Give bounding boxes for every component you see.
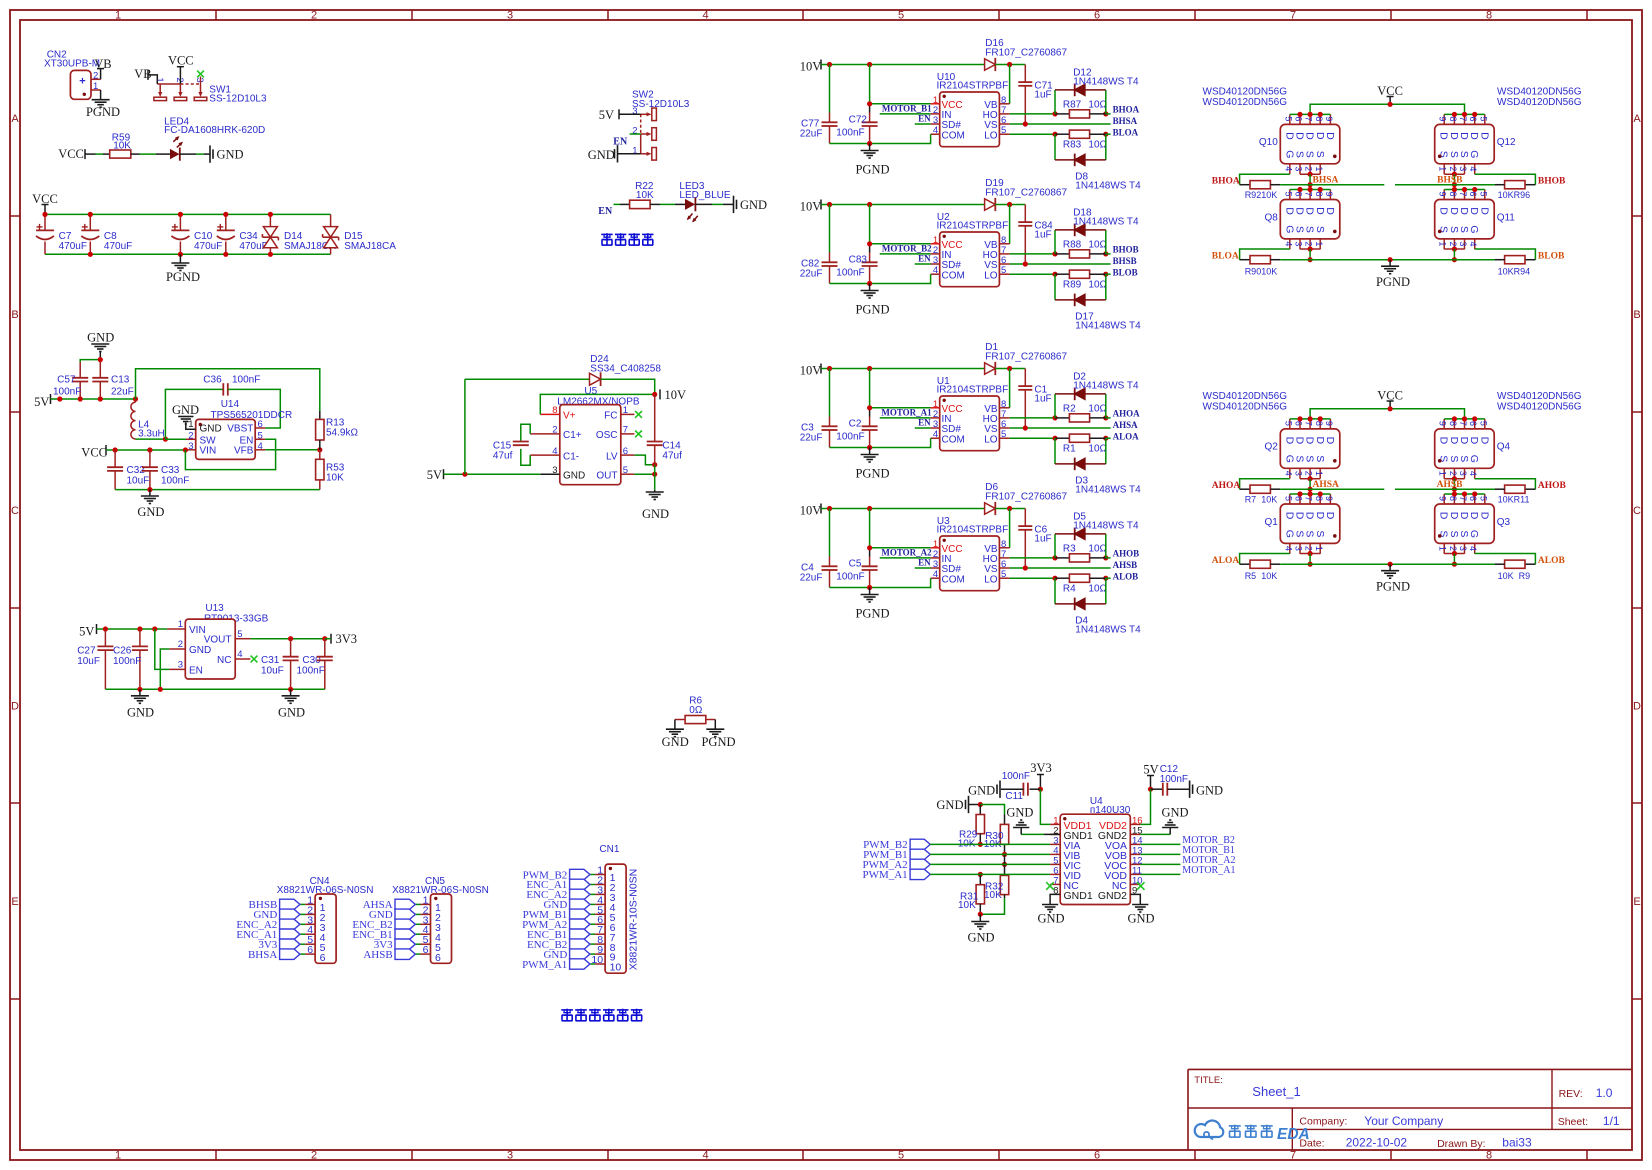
wire 10V rail U2 bbox=[821, 202, 985, 207]
svg-text:7: 7 bbox=[1290, 10, 1296, 22]
JLCEDA logo bbox=[1195, 1121, 1310, 1143]
U3 pin3 stub bbox=[931, 567, 940, 569]
resistor R9010K body bbox=[1240, 256, 1281, 264]
svg-text:3: 3 bbox=[507, 10, 513, 22]
power symbol GND above C57 bbox=[87, 331, 114, 360]
svg-text:BHOB: BHOB bbox=[1538, 177, 1566, 187]
wire LV to C14 bbox=[634, 455, 657, 467]
svg-text:D: D bbox=[1478, 132, 1490, 140]
svg-text:GND: GND bbox=[936, 798, 963, 812]
wire 10V rail U1 bbox=[821, 366, 985, 371]
net label AHOA bbox=[1113, 408, 1141, 418]
svg-text:MOTOR_B2: MOTOR_B2 bbox=[882, 244, 932, 254]
diode D4 body bbox=[1075, 598, 1085, 611]
wire OUT node bbox=[634, 472, 657, 477]
U2 pin5 stub bbox=[999, 273, 1009, 275]
svg-text:47uf: 47uf bbox=[493, 451, 513, 462]
capacitor C57 labels bbox=[53, 375, 81, 398]
svg-text:E: E bbox=[11, 896, 18, 908]
svg-text:R83: R83 bbox=[1063, 140, 1082, 151]
wire R6 left bbox=[675, 720, 685, 730]
mosfet Q1 body bbox=[1264, 491, 1339, 553]
svg-text:R87: R87 bbox=[1063, 100, 1082, 111]
svg-text:7: 7 bbox=[1290, 1150, 1296, 1162]
svg-text:A: A bbox=[11, 113, 19, 125]
U10 pin5 stub bbox=[999, 133, 1009, 135]
svg-text:GND: GND bbox=[200, 423, 222, 434]
svg-text:X8821WR-10S-N0SN: X8821WR-10S-N0SN bbox=[628, 869, 640, 971]
wire U13 bottom rail bbox=[105, 687, 324, 692]
mosfet Q4 body bbox=[1435, 416, 1511, 478]
U4 pin10 NC X bbox=[1137, 882, 1145, 890]
svg-text:7: 7 bbox=[1304, 191, 1314, 196]
capacitor C3 labels bbox=[800, 423, 823, 444]
capacitor C14 body bbox=[647, 394, 663, 464]
svg-text:100nF: 100nF bbox=[1002, 771, 1030, 782]
svg-text:GND: GND bbox=[1006, 805, 1033, 819]
wire VCC to VIN pin3 bbox=[106, 447, 188, 452]
wire gate Q4 bbox=[1475, 479, 1536, 490]
capacitor C30 labels bbox=[297, 655, 325, 677]
svg-text:BLOA: BLOA bbox=[1113, 128, 1139, 138]
svg-text:GND: GND bbox=[662, 735, 689, 749]
connector CN2 refdes bbox=[47, 49, 67, 60]
power flag GND at SW2 bbox=[588, 145, 618, 162]
svg-text:3: 3 bbox=[1293, 471, 1303, 476]
part label WSD40120DN56G left Q10 bbox=[1203, 87, 1288, 108]
svg-text:PGND: PGND bbox=[855, 607, 889, 621]
svg-text:3: 3 bbox=[632, 106, 637, 117]
wire SW pin2 bbox=[165, 438, 186, 440]
wire VCC U3 bbox=[867, 545, 931, 550]
svg-text:EN: EN bbox=[918, 114, 931, 124]
net label EN at U10 bbox=[918, 114, 931, 124]
svg-text:C13: C13 bbox=[111, 375, 130, 386]
svg-text:5V: 5V bbox=[1143, 763, 1158, 777]
svg-text:10Ω: 10Ω bbox=[1088, 544, 1107, 555]
svg-text:4: 4 bbox=[1283, 546, 1293, 551]
svg-text:10uF: 10uF bbox=[261, 666, 284, 677]
svg-text:IR2104STRPBF: IR2104STRPBF bbox=[937, 220, 1009, 231]
svg-text:9: 9 bbox=[1438, 421, 1448, 426]
svg-text:S: S bbox=[1314, 455, 1326, 462]
wire LO node U10 bbox=[1010, 132, 1109, 137]
wire 5V to U4 pin16 bbox=[1140, 789, 1150, 824]
wire VB feed U1 bbox=[1009, 369, 1011, 408]
CN4 pin 4 port ENC_A1 bbox=[236, 924, 315, 941]
capacitor C4 body bbox=[822, 509, 838, 588]
junctions on cap bank buses bbox=[42, 212, 273, 257]
power flag 5V at U5 bbox=[427, 468, 444, 482]
diode D17 body bbox=[1075, 294, 1085, 307]
svg-text:R89: R89 bbox=[1063, 280, 1082, 291]
svg-text:22uF: 22uF bbox=[111, 387, 134, 398]
U1 pin1 stub bbox=[931, 407, 940, 409]
chinese caption mainboard-connector bbox=[561, 1009, 642, 1022]
svg-text:PWM_A1: PWM_A1 bbox=[862, 869, 907, 881]
TVS diode D14 labels bbox=[284, 231, 336, 252]
svg-text:C: C bbox=[11, 505, 19, 517]
power flag 10V at U5 bbox=[652, 388, 686, 402]
svg-text:D: D bbox=[1478, 512, 1490, 520]
wire HS row left BHSA bbox=[1280, 184, 1384, 186]
no-connect X on SW1 pin3 bbox=[197, 71, 204, 84]
svg-text:GND: GND bbox=[1196, 784, 1223, 798]
capacitor C72 body bbox=[862, 65, 878, 144]
power flag 10V at U2 bbox=[800, 199, 822, 213]
svg-text:4: 4 bbox=[1283, 241, 1293, 246]
svg-text:D: D bbox=[1324, 132, 1336, 140]
svg-text:Q10: Q10 bbox=[1259, 137, 1278, 148]
svg-text:3V3: 3V3 bbox=[1030, 761, 1052, 775]
svg-text:Q3: Q3 bbox=[1497, 517, 1511, 528]
capacitor C30 body bbox=[317, 639, 333, 690]
regulator U13 refdes bbox=[204, 603, 269, 625]
net label EN at SW2 bbox=[613, 136, 628, 147]
svg-text:EN: EN bbox=[613, 136, 628, 147]
resistor R32 labels bbox=[984, 881, 1004, 901]
svg-text:IR2104STRPBF: IR2104STRPBF bbox=[937, 524, 1009, 535]
svg-text:10Ω: 10Ω bbox=[1088, 140, 1107, 151]
wire GND to SW2 pin1 bbox=[618, 153, 641, 155]
power flag VB at SW1 bbox=[134, 67, 157, 84]
net label ALOB bbox=[1113, 572, 1139, 582]
svg-text:1: 1 bbox=[1314, 546, 1324, 551]
connector CN2 body bbox=[70, 70, 91, 99]
svg-text:PGND: PGND bbox=[855, 163, 889, 177]
power symbol GND at R6 bbox=[662, 729, 689, 749]
svg-text:2: 2 bbox=[632, 126, 637, 137]
svg-text:10KR94: 10KR94 bbox=[1498, 266, 1531, 276]
wire VS out U2 bbox=[1010, 261, 1111, 266]
svg-text:7: 7 bbox=[1304, 496, 1314, 501]
resistor R29 labels bbox=[958, 830, 978, 850]
connector CN4 value bbox=[277, 885, 374, 896]
U4 pin7 NC X bbox=[1046, 882, 1054, 890]
capacitor C84 labels bbox=[1034, 220, 1053, 240]
svg-text:GND: GND bbox=[127, 706, 154, 720]
svg-text:S: S bbox=[1314, 151, 1326, 158]
svg-text:6: 6 bbox=[1293, 496, 1303, 501]
net label MOTOR_B2 bbox=[882, 244, 932, 254]
svg-text:GND: GND bbox=[588, 148, 615, 162]
svg-text:COM: COM bbox=[942, 270, 965, 281]
svg-text:Q8: Q8 bbox=[1264, 212, 1278, 223]
svg-text:GND: GND bbox=[1161, 805, 1188, 819]
CN2 pin 2 bbox=[91, 71, 101, 82]
wire EN to SW2 pin2 bbox=[630, 133, 641, 135]
U2 pin1 stub bbox=[931, 243, 940, 245]
power flag VCC at R59 bbox=[58, 147, 85, 161]
wire VCC U1 bbox=[867, 405, 931, 410]
capacitor C6 labels bbox=[1034, 524, 1051, 544]
TVS diode D14 body bbox=[262, 214, 278, 254]
svg-text:10V: 10V bbox=[800, 199, 822, 213]
svg-text:1N4148WS T4: 1N4148WS T4 bbox=[1075, 485, 1141, 496]
LED LED3 body bbox=[685, 198, 698, 223]
svg-text:V+: V+ bbox=[563, 411, 576, 422]
resistor R53 labels bbox=[326, 463, 345, 484]
svg-text:BHOB: BHOB bbox=[1113, 244, 1139, 254]
wire 5V rail bbox=[51, 396, 139, 401]
capacitor C8 body bbox=[81, 214, 99, 254]
CN5 pin 1 port AHSA bbox=[363, 894, 431, 911]
resistor R3 body bbox=[1055, 554, 1106, 562]
svg-text:C11: C11 bbox=[1005, 791, 1023, 802]
svg-text:1N4148WS T4: 1N4148WS T4 bbox=[1073, 380, 1139, 391]
wire R22 to LED3 bbox=[650, 203, 685, 205]
capacitor C83 labels bbox=[836, 254, 867, 278]
svg-text:LO: LO bbox=[984, 270, 998, 281]
svg-text:MOTOR_A2: MOTOR_A2 bbox=[881, 548, 932, 558]
wire C57 C13 top link bbox=[80, 357, 103, 362]
svg-text:4: 4 bbox=[1283, 471, 1293, 476]
LED LED4 refdes bbox=[164, 116, 265, 136]
gate driver U10 body bbox=[933, 92, 1006, 147]
capacitor C77 labels bbox=[800, 119, 823, 140]
wire VS out U1 bbox=[1010, 425, 1111, 430]
CN1 pin 9 port GND bbox=[543, 944, 605, 961]
svg-text:EN: EN bbox=[598, 206, 613, 217]
svg-text:EN: EN bbox=[189, 665, 203, 676]
mosfet Q2 body bbox=[1264, 416, 1339, 478]
svg-text:1N4148WS T4: 1N4148WS T4 bbox=[1075, 625, 1141, 636]
svg-text:4: 4 bbox=[1468, 241, 1478, 246]
net label MOTOR_A1 bbox=[1182, 865, 1235, 876]
wire EN to SD U2 bbox=[915, 263, 931, 265]
svg-text:ALOB: ALOB bbox=[1538, 556, 1566, 566]
CN1 pin 4 port GND bbox=[543, 894, 605, 911]
svg-text:MOTOR_A1: MOTOR_A1 bbox=[1182, 865, 1235, 876]
svg-text:6: 6 bbox=[1293, 192, 1303, 197]
voltage regulator U14 body bbox=[188, 419, 263, 459]
diode D19 body bbox=[985, 198, 996, 211]
net port PWM_B2 bbox=[863, 839, 930, 851]
svg-text:AHSB: AHSB bbox=[1437, 480, 1464, 490]
power symbol PGND at U10 bbox=[855, 144, 889, 177]
wire PWM_A1 to U4 bbox=[930, 873, 1050, 875]
power flag GND right of C12 bbox=[1190, 781, 1223, 798]
svg-text:Q12: Q12 bbox=[1497, 137, 1516, 148]
wire PGND bottom bus bbox=[45, 253, 331, 255]
diode D24 refdes bbox=[590, 354, 661, 375]
diode D8 loop bbox=[1055, 134, 1106, 160]
svg-text:D: D bbox=[11, 701, 19, 713]
wire COM to PGND rail U3 bbox=[830, 578, 931, 590]
svg-text:GND: GND bbox=[137, 505, 164, 519]
svg-text:10Ω: 10Ω bbox=[1088, 100, 1107, 111]
buffer U4 body bbox=[1053, 814, 1142, 904]
svg-text:R4: R4 bbox=[1063, 584, 1076, 595]
svg-text:10V: 10V bbox=[665, 388, 687, 402]
wire U4 out MOTOR_A2 bbox=[1140, 863, 1180, 865]
svg-text:1.0: 1.0 bbox=[1596, 1086, 1613, 1100]
svg-text:Q1: Q1 bbox=[1264, 517, 1278, 528]
svg-text:2: 2 bbox=[1448, 546, 1458, 551]
svg-text:5: 5 bbox=[1478, 421, 1488, 426]
U10 pin4 stub bbox=[931, 133, 940, 135]
wire source join Q8 bbox=[1300, 246, 1320, 262]
svg-text:10V: 10V bbox=[800, 363, 822, 377]
net label BLOB bbox=[1538, 252, 1565, 262]
svg-text:6: 6 bbox=[1468, 421, 1478, 426]
svg-text:2: 2 bbox=[1304, 546, 1314, 551]
capacitor C27 labels bbox=[77, 646, 100, 667]
resistor 10K R9 label bbox=[1498, 571, 1531, 581]
connector CN5 body bbox=[431, 894, 452, 964]
svg-text:PWM_A1: PWM_A1 bbox=[522, 959, 567, 971]
svg-text:470uF: 470uF bbox=[59, 241, 87, 252]
wire MOTOR_B1 to IN bbox=[880, 113, 931, 115]
part label WSD40120DN56G right Q4 bbox=[1497, 391, 1582, 412]
svg-text:Sheet:: Sheet: bbox=[1558, 1116, 1588, 1128]
capacitor C32 labels bbox=[127, 465, 150, 487]
gate driver U1 refdes bbox=[937, 376, 1009, 396]
svg-text:6: 6 bbox=[307, 944, 313, 956]
svg-text:1: 1 bbox=[115, 1150, 121, 1162]
svg-text:7: 7 bbox=[1458, 496, 1468, 501]
svg-text:VFB: VFB bbox=[234, 446, 254, 457]
svg-text:G: G bbox=[1468, 150, 1480, 158]
capacitor C14 labels bbox=[662, 440, 682, 461]
svg-text:100nF: 100nF bbox=[297, 666, 325, 677]
svg-text:9: 9 bbox=[1324, 191, 1334, 196]
net label AHOB bbox=[1113, 548, 1140, 558]
svg-text:FR107_C2760867: FR107_C2760867 bbox=[985, 491, 1067, 502]
wire LO node U3 bbox=[1010, 576, 1109, 581]
svg-text:GND: GND bbox=[278, 706, 305, 720]
svg-text:5V: 5V bbox=[427, 468, 442, 482]
svg-text:2022-10-02: 2022-10-02 bbox=[1346, 1136, 1408, 1150]
diode D18 refdes bbox=[1073, 207, 1139, 227]
svg-text:2: 2 bbox=[1304, 471, 1314, 476]
capacitor C34 body bbox=[217, 214, 235, 254]
svg-text:6: 6 bbox=[435, 952, 441, 964]
diode D16 body bbox=[985, 58, 996, 71]
diode D2 body bbox=[1075, 388, 1085, 401]
U2 pin6 stub bbox=[999, 263, 1009, 265]
wire PWM_B2 to U4 bbox=[930, 843, 1050, 845]
mosfet Q12 body bbox=[1435, 112, 1516, 174]
power flag VCC at bridge Q10 bbox=[1377, 84, 1403, 104]
svg-text:AHSA: AHSA bbox=[1113, 420, 1139, 430]
U10 pin7 stub bbox=[999, 113, 1009, 115]
diode D1 body bbox=[985, 362, 996, 375]
svg-text:C1+: C1+ bbox=[563, 430, 582, 441]
svg-text:10uF: 10uF bbox=[127, 476, 150, 487]
switch SW1 refdes bbox=[209, 85, 231, 96]
wire LO node U1 bbox=[1010, 436, 1109, 441]
part label WSD40120DN56G right Q12 bbox=[1497, 87, 1582, 108]
net label BLOA bbox=[1113, 128, 1139, 138]
svg-text:SS-12D10L3: SS-12D10L3 bbox=[632, 99, 690, 110]
CN5 pin 4 port ENC_B1 bbox=[352, 924, 430, 941]
resistor R22 body bbox=[630, 200, 651, 208]
diode D4 loop bbox=[1055, 578, 1106, 604]
mosfet Q8 body bbox=[1264, 187, 1339, 249]
svg-text:GND: GND bbox=[967, 931, 994, 945]
wire LO out U10 bbox=[1106, 133, 1111, 135]
svg-text:6: 6 bbox=[320, 952, 326, 964]
diode D5 refdes bbox=[1073, 511, 1139, 531]
resistor R2 labels bbox=[1063, 404, 1108, 415]
svg-text:6: 6 bbox=[1293, 421, 1303, 426]
svg-text:R2: R2 bbox=[1063, 404, 1076, 415]
wire PGND rail bridge Q1 bbox=[1280, 562, 1495, 567]
svg-text:OSC: OSC bbox=[596, 430, 618, 441]
svg-text:4: 4 bbox=[702, 1150, 708, 1162]
svg-text:10Ω: 10Ω bbox=[1088, 240, 1107, 251]
inductor L4 labels bbox=[138, 420, 165, 440]
svg-text:U13: U13 bbox=[205, 603, 224, 614]
capacitor C12 labels bbox=[1160, 764, 1188, 785]
svg-text:8: 8 bbox=[1448, 192, 1458, 197]
svg-text:U14: U14 bbox=[221, 399, 240, 410]
diode D5 loop bbox=[1055, 534, 1106, 558]
diode D17 refdes bbox=[1075, 312, 1141, 332]
svg-text:VOUT: VOUT bbox=[204, 635, 232, 646]
svg-text:BHSA: BHSA bbox=[1313, 176, 1339, 186]
U2 pin4 stub bbox=[931, 273, 940, 275]
connector CN4 body bbox=[315, 894, 336, 964]
resistor R9210K label bbox=[1245, 190, 1278, 200]
wire source join Q12 bbox=[1444, 172, 1464, 190]
svg-text:AHOB: AHOB bbox=[1538, 481, 1567, 491]
svg-text:10KR96: 10KR96 bbox=[1498, 190, 1531, 200]
svg-text:BLOB: BLOB bbox=[1113, 268, 1138, 278]
capacitor C26 body bbox=[132, 629, 148, 689]
svg-text:100nF: 100nF bbox=[53, 387, 81, 398]
resistor R32 body bbox=[980, 854, 1008, 914]
svg-text:10V: 10V bbox=[800, 503, 822, 517]
resistor 10KR11 body bbox=[1495, 485, 1535, 493]
U4 pin stubs bbox=[1050, 824, 1140, 884]
U1 pin6 stub bbox=[999, 427, 1009, 429]
diode D12 body bbox=[1075, 84, 1085, 97]
U1 pin2 stub bbox=[931, 417, 940, 419]
svg-text:3: 3 bbox=[1293, 241, 1303, 246]
capacitor C71 body bbox=[1018, 65, 1032, 125]
U3 pin7 stub bbox=[999, 557, 1009, 559]
svg-text:1: 1 bbox=[115, 10, 121, 22]
svg-text:C2: C2 bbox=[849, 418, 862, 429]
wire D6 cathode node bbox=[995, 506, 1025, 511]
wire 3V3 down to rail bbox=[325, 638, 331, 640]
svg-text:D: D bbox=[1324, 207, 1336, 215]
wire cap bank left edge bbox=[44, 214, 46, 228]
net label BHSB bbox=[1113, 256, 1137, 266]
inductor L4 body bbox=[131, 399, 136, 439]
svg-text:3: 3 bbox=[1458, 471, 1468, 476]
wire gate Q8 bbox=[1240, 249, 1290, 260]
wire source join Q1 bbox=[1300, 551, 1320, 567]
U1 pin7 stub bbox=[999, 417, 1009, 419]
resistor R6 body bbox=[685, 716, 706, 724]
svg-text:Q2: Q2 bbox=[1264, 442, 1278, 453]
svg-text:AHOA: AHOA bbox=[1212, 481, 1241, 491]
capacitor C15 labels bbox=[493, 440, 513, 461]
svg-text:1: 1 bbox=[188, 419, 193, 430]
capacitor C1 body bbox=[1018, 369, 1032, 429]
resistor R5 10K body bbox=[1240, 560, 1281, 568]
gate driver U1 body bbox=[933, 396, 1006, 451]
diode D8 refdes bbox=[1075, 172, 1141, 192]
svg-text:GND: GND bbox=[642, 507, 669, 521]
U5 pin1 stub NC bbox=[621, 411, 642, 418]
svg-text:100nF: 100nF bbox=[836, 432, 864, 443]
svg-text:5: 5 bbox=[898, 1150, 904, 1162]
svg-text:PGND: PGND bbox=[1376, 275, 1410, 289]
